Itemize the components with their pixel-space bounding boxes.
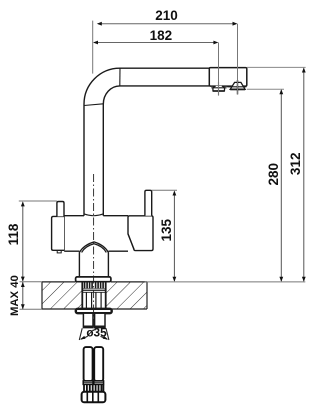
detail: supply hoses and shank	[84, 347, 104, 381]
dia 35 annotation	[79, 328, 109, 340]
dim 182	[93, 28, 218, 44]
detail base nut	[82, 392, 106, 403]
right handle	[145, 190, 152, 216]
svg-text:ø35: ø35	[86, 325, 107, 339]
supply tube lines in shank	[86, 292, 101, 309]
pipe joint line	[84, 104, 103, 106]
dim 312	[247, 67, 306, 281]
dim 118	[6, 201, 57, 282]
detail collars	[83, 381, 103, 385]
base cylinder	[79, 252, 108, 277]
threaded shank	[82, 282, 105, 309]
centerline of faucet axis	[93, 174, 95, 331]
svg-text:MAX 40: MAX 40	[9, 275, 21, 316]
spout joint line	[119, 68, 121, 86]
pipe-body junction curve	[84, 214, 103, 216]
mounting nut	[76, 309, 112, 313]
left aerator	[213, 86, 225, 91]
valve body	[64, 216, 128, 252]
left valve cap	[52, 216, 65, 253]
countertop hatched slab	[42, 282, 147, 309]
faucet body: vertical pipe and spout outer outline	[84, 68, 209, 216]
svg-text:182: 182	[150, 28, 173, 43]
svg-text:280: 280	[266, 163, 281, 186]
svg-text:312: 312	[288, 153, 303, 176]
dim 210	[93, 8, 238, 74]
left aerator centerlines	[211, 82, 226, 95]
svg-text:135: 135	[159, 218, 174, 241]
extension line right aerator	[237, 24, 239, 95]
base flange	[76, 277, 111, 282]
baseline extension (counter level)	[145, 281, 306, 283]
svg-text:210: 210	[155, 8, 178, 23]
spout head	[209, 68, 247, 87]
detail thread marks	[84, 385, 103, 392]
dim 280	[247, 89, 284, 282]
dia 35 arrowheads	[80, 336, 108, 340]
dim MAX 40	[9, 275, 42, 316]
bell escutcheon	[79, 242, 108, 253]
shank thread marks	[85, 282, 104, 288]
shank collar lines	[83, 289, 105, 292]
dia 35 text	[86, 325, 107, 339]
supply tubes below nut	[83, 313, 105, 327]
right aerator centerlines	[227, 80, 246, 94]
svg-text:118: 118	[6, 223, 21, 245]
left handle	[57, 202, 64, 217]
right aerator	[230, 82, 245, 89]
tube end caps	[83, 326, 105, 328]
extension line left aerator	[218, 43, 220, 96]
dim 135	[152, 190, 177, 281]
right valve cap	[128, 216, 153, 251]
